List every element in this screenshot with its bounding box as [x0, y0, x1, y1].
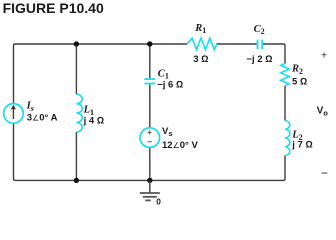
- svg-text:−j 2 Ω: −j 2 Ω: [246, 54, 272, 65]
- wire right rail R2-to-L2: [284, 86, 286, 121]
- voltage source Vs (cyan circle with plus minus): [140, 128, 160, 148]
- svg-text:3 Ω: 3 Ω: [193, 54, 208, 65]
- wire top segment C2 to top-right corner down to R2: [263, 44, 285, 64]
- wire top segment R1-to-C2: [216, 43, 256, 45]
- svg-text:−: −: [321, 166, 328, 180]
- wire middle branch Vs-to-bottom: [149, 147, 151, 180]
- inductor L1 (vertical coil, cyan): [76, 94, 82, 132]
- wire middle branch top (x=149.8, to C1): [149, 44, 151, 78]
- svg-text:R2: R2: [291, 64, 303, 76]
- wire left rail lower + bottom-left corner + bottom rail + bottom-right corner + right rail lower: [14, 123, 286, 180]
- svg-text:Vo: Vo: [317, 106, 329, 118]
- junction dot top of middle branch: [147, 41, 152, 46]
- resistor R2 (vertical zigzag, cyan): [281, 64, 289, 86]
- junction dot bottom of L1 branch: [74, 178, 79, 183]
- wire left rail upper + top-left corner + top rail to R1: [14, 44, 188, 104]
- capacitor C2 (vertical plates on top rail, cyan): [258, 40, 263, 50]
- current source Is (cyan circle with up arrow): [4, 104, 24, 124]
- svg-text:Is: Is: [26, 101, 34, 113]
- svg-text:−: −: [147, 137, 153, 148]
- svg-text:FIGURE P10.40: FIGURE P10.40: [3, 0, 104, 16]
- ground symbol: [140, 180, 160, 200]
- wire L1 branch upper (x=76.4): [75, 44, 77, 94]
- svg-text:−j 6 Ω: −j 6 Ω: [157, 79, 183, 90]
- junction dot bottom of middle branch (ground node): [147, 178, 152, 183]
- svg-text:j 7 Ω: j 7 Ω: [291, 140, 313, 151]
- wire L1 branch lower: [75, 132, 77, 180]
- svg-text:C2: C2: [254, 24, 265, 36]
- svg-text:j 4 Ω: j 4 Ω: [83, 115, 105, 126]
- svg-text:5 Ω: 5 Ω: [292, 76, 307, 87]
- svg-text:R1: R1: [194, 23, 206, 35]
- wire middle branch C1-to-Vs: [149, 84, 151, 128]
- svg-text:12∠0° V: 12∠0° V: [162, 140, 198, 151]
- svg-text:3∠0° A: 3∠0° A: [27, 113, 58, 124]
- svg-text:+: +: [321, 50, 327, 62]
- svg-text:0: 0: [156, 197, 161, 207]
- junction dot top of L1 branch: [74, 41, 79, 46]
- inductor L2 (vertical coil, cyan): [285, 121, 290, 156]
- capacitor C1 (horizontal plates on middle branch, cyan): [144, 79, 155, 83]
- svg-text:+: +: [147, 127, 152, 137]
- svg-text:Vs: Vs: [162, 126, 173, 138]
- resistor R1 (horizontal zigzag, cyan): [187, 38, 217, 50]
